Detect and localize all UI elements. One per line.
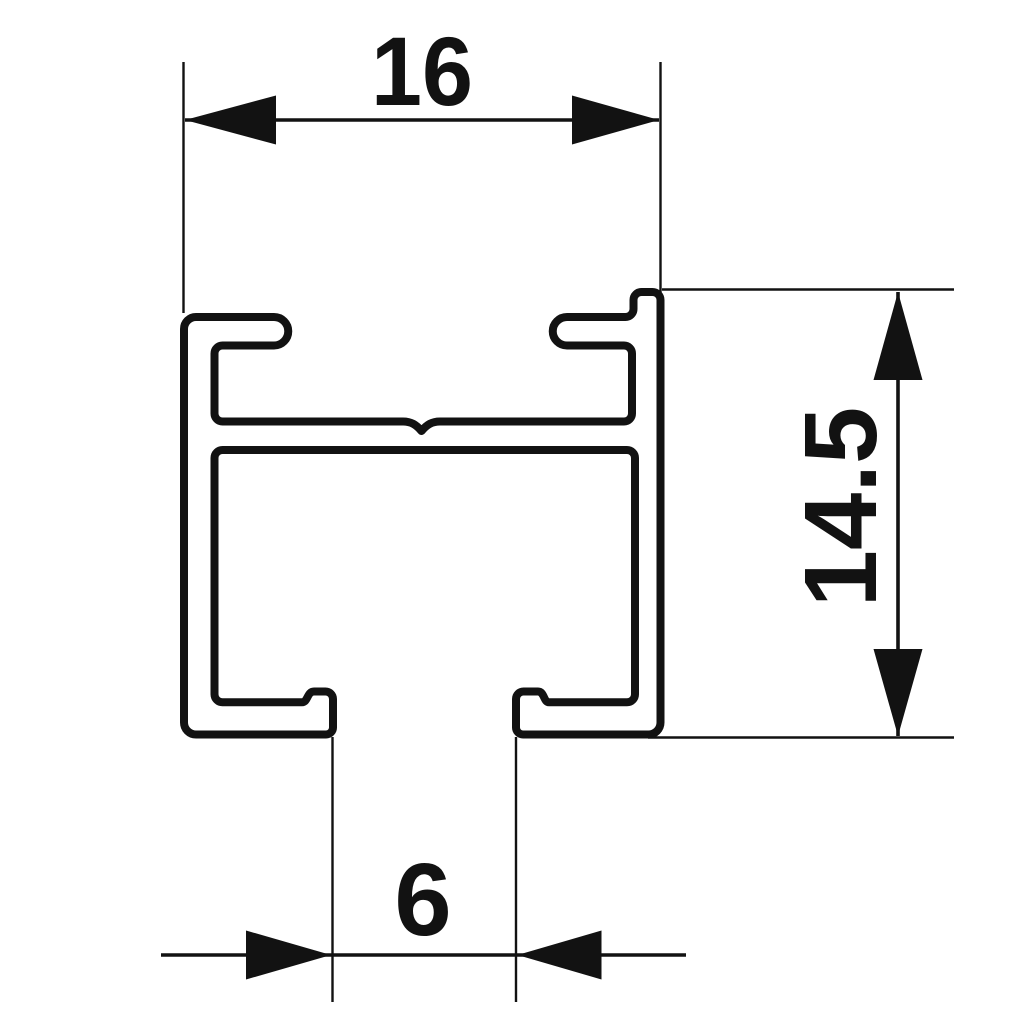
svg-text:14.5: 14.5 — [783, 407, 898, 607]
svg-text:16: 16 — [371, 17, 473, 126]
svg-text:6: 6 — [394, 842, 451, 957]
